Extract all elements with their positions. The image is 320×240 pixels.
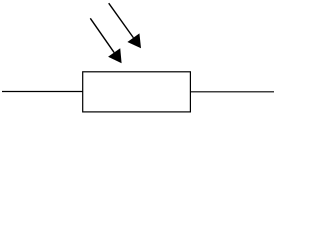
light arrow 1 bbox=[90, 18, 121, 63]
light arrow 2 bbox=[109, 3, 141, 48]
wire right lead bbox=[190, 91, 274, 93]
resistor LDR body bbox=[83, 72, 191, 112]
wire left lead bbox=[2, 91, 83, 93]
